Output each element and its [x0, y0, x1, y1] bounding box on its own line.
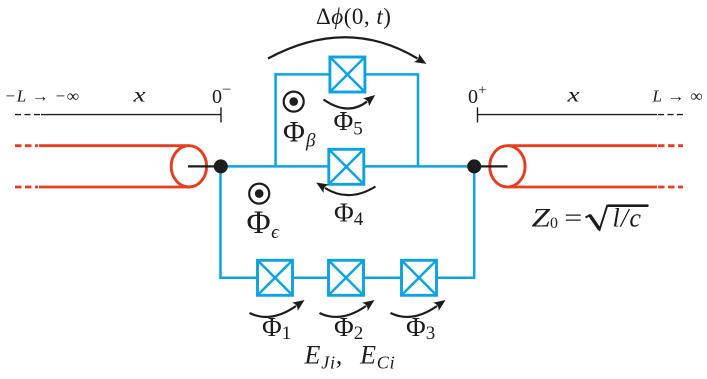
right axis end tick: [477, 107, 479, 122]
label Z0 = sqrt(l/c): [532, 204, 649, 233]
left transmission line end ellipse: [171, 146, 206, 187]
svg-text:−L → −∞: −L → −∞: [5, 87, 80, 106]
left transmission line top conductor: [39, 144, 189, 147]
left axis end tick: [220, 107, 222, 122]
right transmission line bottom conductor: [507, 186, 657, 189]
right transmission line end ellipse: [490, 146, 525, 187]
svg-text:0: 0: [550, 215, 558, 232]
junction J3: [402, 260, 437, 295]
loop arrow Phi5: [324, 100, 368, 109]
big phase arrow arc: [268, 37, 418, 58]
radical sign of sqrt(l/c): [586, 206, 649, 230]
right center-conductor stub: [474, 165, 508, 167]
loop arrow Phi1: [250, 306, 297, 317]
loop arrow Phi4: [325, 187, 376, 196]
loop arrow Phi3: [391, 306, 438, 317]
svg-text:=: =: [564, 205, 582, 232]
top loop left wire: [274, 73, 277, 166]
right axis line: [478, 114, 658, 116]
left transmission line top dashed tail: [15, 144, 38, 147]
right transmission line bottom dashed tail: [658, 186, 683, 189]
right axis dashed tail: [658, 114, 683, 116]
svg-text:Z: Z: [532, 204, 551, 233]
right transmission line top dashed tail: [658, 144, 683, 147]
svg-text:x: x: [132, 85, 145, 107]
junction J5: [330, 57, 365, 92]
node right: [467, 159, 481, 173]
left axis dashed tail: [15, 114, 40, 116]
junction J4: [329, 149, 364, 184]
svg-text:l/c: l/c: [613, 204, 643, 233]
node left: [214, 159, 228, 173]
svg-text:x: x: [566, 85, 579, 107]
loop arrow Phi2: [320, 306, 367, 317]
flux symbol Phi_beta circled dot: [284, 92, 304, 112]
top loop right wire: [417, 74, 420, 166]
main wire: [221, 165, 475, 168]
flux symbol Phi_epsilon circled dot: [249, 184, 269, 204]
top loop top wire: [274, 73, 419, 76]
left transmission line bottom dashed tail: [15, 186, 38, 189]
bottom loop left wire: [219, 166, 222, 279]
left transmission line bottom conductor: [39, 186, 189, 189]
bottom loop right wire: [473, 166, 476, 277]
svg-text:L → ∞: L → ∞: [652, 87, 704, 106]
svg-text:Δϕ(0, t): Δϕ(0, t): [316, 4, 391, 29]
right transmission line top conductor: [507, 144, 657, 147]
bottom loop bottom wire: [219, 276, 475, 279]
junction J2: [329, 260, 364, 295]
left axis line: [41, 114, 221, 116]
left center-conductor stub: [188, 165, 221, 167]
junction J1: [258, 260, 293, 295]
